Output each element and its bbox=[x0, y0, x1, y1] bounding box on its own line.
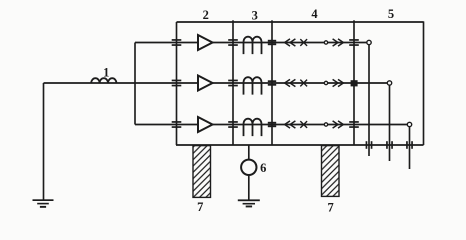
svg-text:7: 7 bbox=[327, 200, 333, 214]
isolator chevrons right row3 bbox=[333, 121, 344, 128]
wire input down to ground bbox=[43, 83, 45, 200]
terminal circle row3 bbox=[407, 122, 411, 126]
wire drop from row 1 terminal bbox=[368, 45, 370, 156]
capacitor col233 row3 bbox=[228, 121, 238, 128]
inductor row1 (section 3) bbox=[244, 37, 262, 54]
capacitor col176 row3 bbox=[172, 121, 182, 128]
wire drop from row 2 terminal bbox=[389, 85, 391, 161]
capacitor col272 row2 bbox=[268, 80, 276, 85]
wire drop from row 3 terminal bbox=[409, 127, 411, 169]
inductor row2 (section 3) bbox=[244, 77, 262, 94]
terminal circle row2 bbox=[387, 81, 391, 85]
capacitor col354 row1 bbox=[349, 39, 359, 46]
attenuator cross row2 bbox=[300, 80, 307, 87]
isolator chevrons right row1 bbox=[333, 39, 344, 46]
svg-text:7: 7 bbox=[197, 200, 203, 214]
capacitor col354 row3 bbox=[349, 121, 359, 128]
amplifier A1 bbox=[198, 35, 213, 50]
isolator chevrons left row3 bbox=[285, 121, 296, 128]
amplifier A3 bbox=[198, 117, 213, 132]
wire top bus (section 5 feed) bbox=[177, 21, 424, 23]
terminal circle row1 bbox=[367, 40, 371, 44]
inductor row3 (section 3) bbox=[244, 119, 262, 136]
capacitor col176 row2 bbox=[172, 80, 182, 87]
wire column at x=233 bbox=[232, 20, 234, 145]
capacitor col272 row3 bbox=[268, 122, 276, 127]
capacitor col233 row2 bbox=[228, 80, 238, 87]
svg-text:3: 3 bbox=[252, 9, 258, 23]
capacitor col233 row1 bbox=[228, 39, 238, 46]
wire circle-6 stem upper bbox=[248, 145, 250, 160]
wire bottom bus bbox=[176, 144, 424, 146]
capacitor col272 row1 bbox=[268, 40, 276, 45]
inductor 1 bbox=[91, 78, 116, 83]
isolator chevrons right row2 bbox=[333, 79, 344, 86]
resonator block 7 left (hatched) bbox=[193, 146, 211, 198]
wire column at x=176 bbox=[176, 22, 178, 145]
wire row 1 horizontal bbox=[135, 42, 367, 44]
small circle row1 bbox=[324, 41, 327, 44]
ground under circle 6 bbox=[238, 199, 260, 207]
capacitor col176 row1 bbox=[172, 39, 182, 46]
wire column at x=272 bbox=[271, 20, 273, 145]
wire circle-6 stem lower bbox=[248, 175, 250, 200]
wire right edge vertical bbox=[423, 21, 425, 145]
small circle row2 bbox=[324, 81, 327, 84]
amplifier A2 bbox=[198, 76, 213, 91]
isolator chevrons left row1 bbox=[285, 39, 296, 46]
small circle row3 bbox=[324, 123, 327, 126]
svg-text:6: 6 bbox=[260, 161, 266, 175]
attenuator cross row3 bbox=[300, 121, 307, 128]
wire row 3 horizontal bbox=[135, 124, 407, 126]
junction node col354 row2 bbox=[351, 80, 358, 86]
svg-text:5: 5 bbox=[388, 7, 394, 21]
svg-text:1: 1 bbox=[103, 66, 109, 80]
detector circle 6 bbox=[241, 160, 256, 175]
resonator block 7 right (hatched) bbox=[322, 146, 340, 197]
svg-text:4: 4 bbox=[311, 7, 318, 21]
ground left bbox=[33, 199, 54, 207]
capacitor on bottom bus at x369 bbox=[366, 141, 373, 149]
svg-text:2: 2 bbox=[203, 8, 209, 22]
attenuator cross row1 bbox=[300, 39, 307, 46]
capacitor on bottom bus at x389 bbox=[386, 141, 393, 149]
wire column at x=354 bbox=[353, 20, 355, 145]
capacitor on bottom bus at x409 bbox=[406, 141, 413, 149]
wire left vertical joining rows bbox=[134, 43, 136, 125]
wire row 2 horizontal (input line) bbox=[44, 82, 388, 84]
isolator chevrons left row2 bbox=[285, 79, 296, 86]
